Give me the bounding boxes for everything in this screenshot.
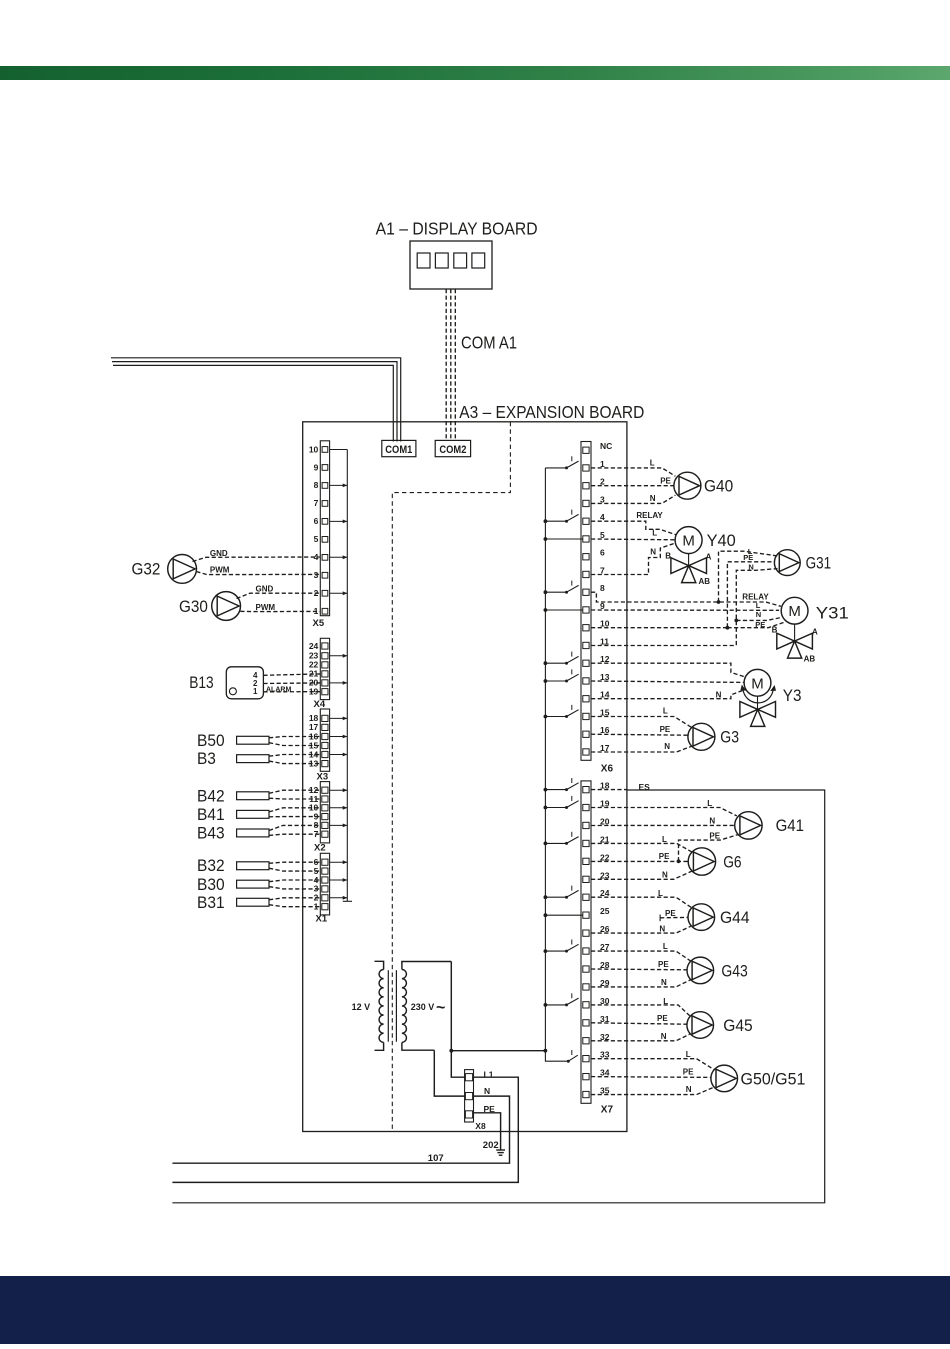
svg-text:B: B xyxy=(665,552,671,561)
svg-text:NC: NC xyxy=(600,441,612,451)
valve Y40 xyxy=(671,554,707,583)
pump G50/G51 xyxy=(711,1065,738,1092)
label G45 xyxy=(723,1017,753,1035)
wire 230V N to X8 N xyxy=(434,1050,465,1096)
pump G45 xyxy=(687,1012,714,1039)
label X3 xyxy=(317,772,329,783)
label PE (G45) xyxy=(657,1014,668,1023)
svg-text:~: ~ xyxy=(436,1000,445,1017)
label PWM (G30) xyxy=(256,603,276,612)
label G30 xyxy=(179,598,208,616)
svg-text:PWM: PWM xyxy=(256,603,276,612)
svg-text:AB: AB xyxy=(804,654,816,663)
pin numbers X1 xyxy=(314,857,319,912)
label AB (Y31) xyxy=(804,654,816,663)
svg-text:G30: G30 xyxy=(179,598,208,616)
svg-text:A1 – DISPLAY BOARD: A1 – DISPLAY BOARD xyxy=(376,219,538,239)
label L (Y40) xyxy=(652,529,657,538)
svg-text:10: 10 xyxy=(309,444,319,454)
transformer primary coil 12V xyxy=(375,961,384,1050)
label G31 xyxy=(806,554,832,572)
svg-text:G43: G43 xyxy=(721,962,747,980)
module B13 xyxy=(226,667,263,699)
label G3 xyxy=(720,729,739,747)
svg-text:PE: PE xyxy=(743,553,753,562)
svg-text:B43: B43 xyxy=(197,825,225,843)
valve Y31 xyxy=(777,624,813,658)
pin numbers X2 xyxy=(309,785,319,839)
label X1 xyxy=(316,914,328,925)
svg-text:COM2: COM2 xyxy=(439,444,466,456)
svg-text:X2: X2 xyxy=(314,843,326,854)
terminal strip X7 xyxy=(581,781,591,1103)
rotation arc Y3 xyxy=(740,685,776,703)
svg-text:230 V: 230 V xyxy=(411,1002,435,1012)
pump G6 xyxy=(688,848,715,875)
wire G6 L (X7:21) xyxy=(591,843,692,852)
label N (G43) xyxy=(661,978,667,987)
svg-text:X1: X1 xyxy=(316,914,328,925)
wire G45 PE (X7:31) xyxy=(591,1023,687,1024)
svg-text:PE: PE xyxy=(658,960,669,969)
wire 230V L to X8 L1 xyxy=(451,962,465,1078)
svg-text:L: L xyxy=(658,889,663,898)
label 202 xyxy=(483,1140,499,1151)
svg-text:6: 6 xyxy=(314,516,319,526)
svg-text:202: 202 xyxy=(483,1140,499,1151)
svg-text:L: L xyxy=(652,529,657,538)
svg-text:B31: B31 xyxy=(197,894,225,912)
wire B13 pin4 (X4:21) xyxy=(263,674,320,675)
wire Y40 N (X6:7) xyxy=(591,543,675,574)
wire N feed 107 xyxy=(172,1096,509,1163)
bus junction dots xyxy=(544,519,548,1007)
junction RELAY/G31-L xyxy=(717,600,721,604)
label X4 xyxy=(314,699,326,710)
svg-text:G44: G44 xyxy=(720,909,750,927)
svg-text:PE: PE xyxy=(660,477,671,486)
label B13 xyxy=(189,674,213,692)
wire G40 L (X6:1) xyxy=(591,468,675,476)
svg-text:L: L xyxy=(756,601,761,610)
label L (Y31) xyxy=(756,601,761,610)
wire G44 N (X7:26) xyxy=(591,926,691,933)
label N (G45) xyxy=(661,1032,667,1041)
label 230 V xyxy=(411,1000,446,1017)
wire G6 PE (X7:22) xyxy=(591,860,688,862)
wire G40 N (X6:3) xyxy=(591,495,675,503)
pump G32 xyxy=(168,555,197,584)
wire Y31 L (X6:9) xyxy=(591,609,779,611)
sensor B50 xyxy=(237,736,321,745)
wire Y40 L (X6:5) xyxy=(591,538,675,541)
wire Y31 RELAY (X6:8) xyxy=(591,592,781,606)
wire G44 L (X7:24) xyxy=(591,897,692,908)
wire G31 PE riser xyxy=(727,562,774,628)
svg-text:G45: G45 xyxy=(723,1017,753,1035)
motor Y3 xyxy=(744,669,771,696)
svg-text:A: A xyxy=(706,552,712,561)
terminal strip X1 xyxy=(320,853,329,915)
terminal strip X5 xyxy=(320,441,329,616)
label G44 xyxy=(720,909,750,927)
svg-text:PE: PE xyxy=(657,1014,668,1023)
wire G32 GND (X5:4) xyxy=(193,557,321,562)
svg-text:M: M xyxy=(682,533,695,550)
svg-text:COM A1: COM A1 xyxy=(461,333,517,353)
svg-text:G3: G3 xyxy=(720,729,739,747)
wire COM1 cable 2 xyxy=(112,362,397,442)
svg-text:N: N xyxy=(662,871,668,880)
pump G30 xyxy=(212,592,241,621)
svg-text:PE: PE xyxy=(665,909,676,918)
label PE (G41) xyxy=(709,832,720,841)
svg-text:A: A xyxy=(812,627,818,636)
label RELAY (Y40) xyxy=(636,511,663,520)
terminal strip X2 xyxy=(320,782,329,843)
label G41 xyxy=(776,817,804,835)
internal voltage divider (dashed) xyxy=(392,422,510,1132)
svg-text:G40: G40 xyxy=(704,478,733,496)
label N (Y31) xyxy=(756,610,761,619)
svg-text:AB: AB xyxy=(699,577,711,586)
svg-text:6: 6 xyxy=(600,548,605,558)
svg-text:B41: B41 xyxy=(197,806,225,824)
label Y3 xyxy=(783,687,802,705)
wire G31 L riser xyxy=(719,551,778,602)
label A3 expansion board title xyxy=(459,402,644,422)
label N (G41) xyxy=(709,817,715,826)
wire G3 L (X6:15) xyxy=(591,717,692,728)
label PE (G43) xyxy=(658,960,669,969)
label ES xyxy=(639,782,651,792)
connector COM1 xyxy=(382,440,416,456)
ground symbol 202 xyxy=(496,1150,505,1155)
svg-text:M: M xyxy=(788,603,801,620)
transformer core xyxy=(388,970,396,1041)
valve Y3 xyxy=(740,696,776,726)
pump G40 xyxy=(674,472,701,499)
label N (X8) xyxy=(484,1086,490,1096)
label GND (G30) xyxy=(256,585,274,594)
label A1 display board title xyxy=(376,219,538,239)
bus left rail xyxy=(343,450,352,902)
wire Y3 L (X6:13) xyxy=(591,681,744,682)
wire G41 PE riser xyxy=(679,835,738,862)
pin numbers B13 xyxy=(253,671,258,696)
label N (G50) xyxy=(686,1085,692,1094)
label G50/G51 xyxy=(741,1071,806,1089)
wire B13 pin2 (X4:20) xyxy=(263,682,320,685)
label L (G6) xyxy=(662,835,667,844)
transformer secondary coil 230V xyxy=(402,962,451,1051)
svg-text:X5: X5 xyxy=(313,618,325,629)
svg-text:N: N xyxy=(659,924,665,933)
wire COM1 cable 1 xyxy=(111,358,401,442)
wire L1 feed xyxy=(172,1077,518,1182)
label N (G31) xyxy=(748,562,753,571)
label 12 V xyxy=(352,1002,371,1012)
svg-text:G50/G51: G50/G51 xyxy=(741,1071,806,1089)
label G6 xyxy=(723,853,741,871)
wire G32 PWM (X5:3) xyxy=(196,572,320,575)
label PE (G40) xyxy=(660,477,671,486)
svg-text:Y31: Y31 xyxy=(816,605,849,623)
svg-text:7: 7 xyxy=(314,498,319,508)
terminal strip X6 xyxy=(581,442,591,761)
svg-text:X4: X4 xyxy=(314,699,326,710)
label PE (G6) xyxy=(659,852,670,861)
label B42 xyxy=(197,787,225,805)
enclosure ES box xyxy=(172,790,824,1203)
svg-text:ES: ES xyxy=(639,782,651,792)
svg-text:L: L xyxy=(650,458,655,467)
junction feed/bus xyxy=(544,1049,548,1053)
svg-text:107: 107 xyxy=(428,1153,444,1164)
label B32 xyxy=(197,857,225,875)
label A (Y40) xyxy=(706,552,712,561)
svg-text:9: 9 xyxy=(314,462,319,472)
svg-text:L: L xyxy=(663,997,668,1006)
wire B13 pin1 ALARM (X4:19) xyxy=(263,691,320,693)
wire Y31 N xyxy=(736,617,781,620)
label PWM (G32) xyxy=(210,566,230,575)
svg-text:L: L xyxy=(663,707,668,716)
wire G50 L (X7:33) xyxy=(591,1059,715,1070)
motor Y31 xyxy=(781,597,808,624)
svg-text:PE: PE xyxy=(755,620,765,629)
svg-text:N: N xyxy=(661,978,667,987)
wire G6 N (X7:23) xyxy=(591,871,692,879)
label A (Y31) xyxy=(812,627,818,636)
label L (G40) xyxy=(650,458,655,467)
svg-text:Y40: Y40 xyxy=(707,532,736,550)
label N (Y40) xyxy=(650,547,656,556)
label L (G45) xyxy=(663,997,668,1006)
display board A1 xyxy=(410,241,492,289)
label B3 xyxy=(197,750,216,768)
svg-text:8: 8 xyxy=(600,583,605,593)
terminal strip X4 xyxy=(320,638,329,699)
label AB (Y40) xyxy=(699,577,711,586)
label PE (G31) xyxy=(743,553,753,562)
label L (G3) xyxy=(663,707,668,716)
junction G41-PE xyxy=(677,859,681,863)
label Y40 xyxy=(707,532,736,550)
pump G3 xyxy=(688,723,715,750)
svg-text:PE: PE xyxy=(683,1068,694,1077)
pump G31 xyxy=(774,550,800,576)
label B (Y31) xyxy=(772,626,778,635)
sensor B43 xyxy=(237,825,321,837)
sensor B41 xyxy=(237,808,321,819)
svg-text:8: 8 xyxy=(314,480,319,490)
label L (G50) xyxy=(686,1050,691,1059)
svg-text:N: N xyxy=(756,610,761,619)
svg-text:B3: B3 xyxy=(197,750,216,768)
pin numbers X6 xyxy=(600,441,612,753)
wire G43 L (X7:27) xyxy=(591,951,691,961)
label L (G31) xyxy=(748,547,753,556)
wire G3 N (X6:17) xyxy=(591,746,692,752)
svg-text:12 V: 12 V xyxy=(352,1002,371,1012)
svg-text:L: L xyxy=(707,799,712,808)
label 107 xyxy=(428,1153,444,1164)
svg-text:B42: B42 xyxy=(197,787,225,805)
sensor B32 xyxy=(237,862,321,871)
label B (Y40) xyxy=(665,552,671,561)
wire Y31 PE xyxy=(727,622,785,628)
label G32 xyxy=(132,561,161,579)
svg-text:N: N xyxy=(650,547,656,556)
wire X6:10 to PE riser xyxy=(591,627,727,629)
wire G43 N (X7:29) xyxy=(591,980,691,987)
terminal strip X3 xyxy=(320,709,329,771)
svg-text:B30: B30 xyxy=(197,876,225,894)
label ALARM xyxy=(266,687,291,694)
label GND (G32) xyxy=(210,549,228,558)
svg-text:L: L xyxy=(663,942,668,951)
label G43 xyxy=(721,962,747,980)
bus plain links xyxy=(545,539,582,915)
sensor B42 xyxy=(237,790,321,800)
svg-text:G32: G32 xyxy=(132,561,161,579)
svg-text:PE: PE xyxy=(709,832,720,841)
wire Y3 N (X6:14) xyxy=(591,689,746,699)
label X5 xyxy=(313,618,325,629)
label B31 xyxy=(197,894,225,912)
wire G41 N (X7:20) xyxy=(591,824,735,826)
wire G45 L (X7:30) xyxy=(591,1005,690,1016)
wire COM1 cable 3 xyxy=(113,365,393,441)
wire G40 PE (X6:2) xyxy=(591,485,674,487)
pump G44 xyxy=(688,904,715,931)
svg-text:1: 1 xyxy=(253,687,258,696)
svg-text:G41: G41 xyxy=(776,817,804,835)
wire G41 L (X7:19) xyxy=(591,808,737,816)
wire X6:11 to N riser xyxy=(591,645,736,647)
label PE (X8) xyxy=(484,1104,496,1114)
label L (G41) xyxy=(707,799,712,808)
pump G41 xyxy=(735,812,762,839)
wire G30 PWM (X5:1) xyxy=(240,610,320,612)
svg-text:PWM: PWM xyxy=(210,566,230,575)
svg-text:N: N xyxy=(664,742,670,751)
svg-text:N: N xyxy=(748,562,753,571)
footer bar xyxy=(0,1276,950,1344)
terminal strip X8 xyxy=(465,1070,474,1122)
wire G30 GND (X5:2) xyxy=(237,593,321,598)
wire G43 PE (X7:28) xyxy=(591,968,687,971)
svg-text:GND: GND xyxy=(210,549,228,558)
junction 230V/L1 xyxy=(449,1049,453,1053)
motor Y40 xyxy=(675,527,702,554)
label PE (G44) xyxy=(665,909,676,918)
svg-text:24: 24 xyxy=(309,641,319,651)
wire G31 N riser xyxy=(736,569,777,646)
connector COM2 xyxy=(435,440,470,456)
svg-text:RELAY: RELAY xyxy=(636,511,663,520)
header bar xyxy=(0,66,950,79)
wire G45 N (X7:32) xyxy=(591,1034,690,1041)
label G40 xyxy=(704,478,733,496)
label B50 xyxy=(197,732,225,750)
svg-text:N: N xyxy=(661,1032,667,1041)
svg-text:X6: X6 xyxy=(601,764,614,775)
label N (G3) xyxy=(664,742,670,751)
sensor B3 xyxy=(237,755,321,764)
wire G44 PE stub xyxy=(660,915,688,922)
pin numbers X5 1-10 xyxy=(309,444,319,616)
label X2 xyxy=(314,843,326,854)
junction Y31-PE/riser xyxy=(726,626,730,630)
wire G50 N (X7:35) xyxy=(591,1087,715,1095)
svg-text:B32: B32 xyxy=(197,857,225,875)
wire Y40 RELAY (X6:4) xyxy=(591,521,676,535)
relay switches xyxy=(545,456,578,1062)
svg-text:PE: PE xyxy=(659,852,670,861)
pin numbers X7 xyxy=(600,781,610,1096)
wire PE to earth xyxy=(473,1113,501,1150)
label N (G6) xyxy=(662,871,668,880)
svg-text:ALARM: ALARM xyxy=(266,687,291,694)
wire COM A1 bundle xyxy=(446,289,455,440)
svg-text:N: N xyxy=(686,1085,692,1094)
pin numbers X4 xyxy=(309,641,319,697)
svg-text:G6: G6 xyxy=(723,853,741,871)
svg-text:3: 3 xyxy=(314,570,319,580)
label L1 xyxy=(484,1069,494,1079)
wire Y3 relay (X6:12) xyxy=(591,663,746,677)
svg-text:COM1: COM1 xyxy=(385,444,412,456)
expansion board A3 outline xyxy=(303,422,627,1132)
svg-text:L: L xyxy=(662,835,667,844)
wire 230V feed to relay bus xyxy=(451,1050,545,1052)
svg-text:X7: X7 xyxy=(601,1105,614,1116)
label X8 xyxy=(475,1121,486,1131)
wire X7:18 to enclosure xyxy=(591,789,627,791)
svg-text:A3 – EXPANSION BOARD: A3 – EXPANSION BOARD xyxy=(459,402,644,422)
svg-text:X3: X3 xyxy=(317,772,329,783)
svg-text:PE: PE xyxy=(660,725,671,734)
svg-text:L: L xyxy=(686,1050,691,1059)
wire G50 PE (X7:34) xyxy=(591,1076,711,1079)
wire G3 PE (X6:16) xyxy=(591,734,688,735)
label RELAY (Y31) xyxy=(742,593,769,602)
svg-text:N: N xyxy=(484,1086,490,1096)
sensor B30 xyxy=(237,880,321,889)
svg-text:G31: G31 xyxy=(806,554,832,572)
label B43 xyxy=(197,825,225,843)
label L (G43) xyxy=(663,942,668,951)
svg-text:Y3: Y3 xyxy=(783,687,802,705)
svg-text:GND: GND xyxy=(256,585,274,594)
svg-text:X8: X8 xyxy=(475,1121,486,1131)
bus relay rail xyxy=(545,468,568,1061)
label PE (G50) xyxy=(683,1068,694,1077)
label PE (Y31) xyxy=(755,620,765,629)
label N (Y3) xyxy=(716,691,722,700)
label X6 xyxy=(601,764,614,775)
label L (G44) xyxy=(658,889,663,898)
label N (G44) xyxy=(659,924,665,933)
svg-text:5: 5 xyxy=(314,534,319,544)
label B30 xyxy=(197,876,225,894)
display board connector squares xyxy=(417,253,484,268)
pin numbers X3 xyxy=(309,713,319,768)
svg-text:B13: B13 xyxy=(189,674,213,692)
svg-text:N: N xyxy=(716,691,722,700)
